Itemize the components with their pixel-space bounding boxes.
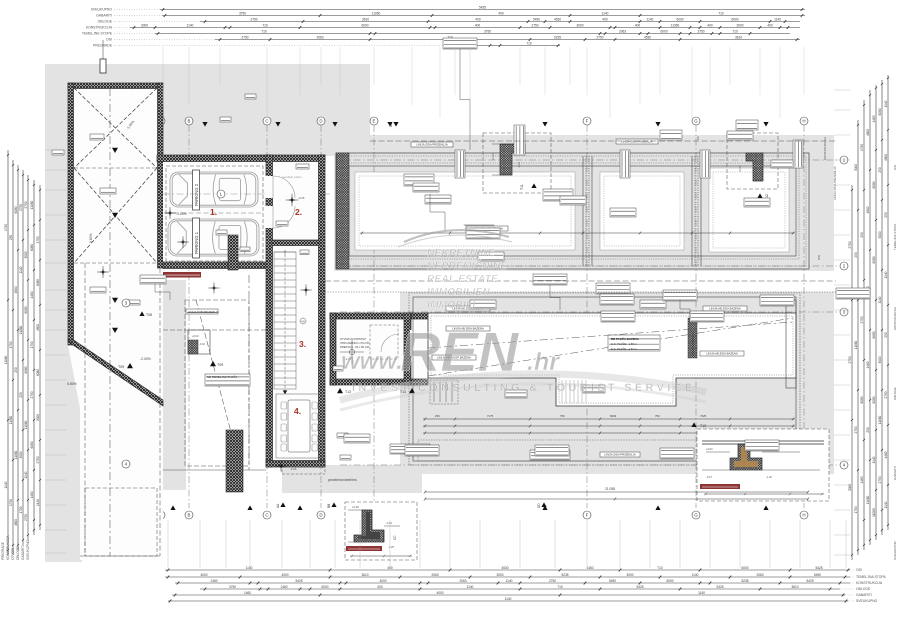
svg-text:- ugostitelj. kotlov -: - ugostitelj. kotlov - [280, 175, 303, 179]
foundation strip outer line [336, 153, 809, 269]
T09b marker [127, 363, 133, 368]
svg-text:+0.38: +0.38 [352, 505, 359, 509]
svg-text:5235: 5235 [554, 35, 561, 39]
svg-text:4000: 4000 [379, 579, 386, 583]
svg-text:6000: 6000 [321, 585, 328, 589]
svg-text:TEMELJNE STOPE: TEMELJNE STOPE [82, 32, 113, 36]
svg-text:T13: T13 [345, 390, 351, 394]
central building bottom stub [282, 467, 325, 474]
excavation zone top-left [45, 64, 370, 156]
svg-text:7175: 7175 [487, 414, 494, 418]
svg-text:1750: 1750 [9, 499, 13, 506]
svg-text:11060: 11060 [19, 325, 23, 334]
svg-text:21 058: 21 058 [605, 487, 615, 491]
svg-text:400: 400 [498, 11, 504, 15]
compressor label black [163, 272, 201, 278]
svg-text:6080: 6080 [24, 366, 28, 373]
svg-text:T13: T13 [700, 424, 706, 428]
svg-text:-0.06: -0.06 [290, 467, 297, 471]
svg-text:6000: 6000 [676, 17, 683, 21]
svg-text:D: D [319, 513, 322, 518]
svg-text:3000: 3000 [19, 451, 23, 458]
left building lower dashed outline [74, 88, 160, 556]
svg-text:NE TEMELJNA PLOČA: NE TEMELJNA PLOČA [207, 374, 237, 379]
svg-text:11060: 11060 [372, 11, 381, 15]
detail T13 drawing [702, 441, 824, 444]
svg-text:TEMELJNA STOPA: TEMELJNA STOPA [856, 575, 886, 579]
central building perimeter wall [266, 155, 325, 467]
svg-text:1140: 1140 [36, 499, 40, 506]
svg-text:6003: 6003 [610, 414, 617, 418]
svg-text:3000: 3000 [878, 356, 882, 363]
grid axis triangles top [202, 122, 207, 127]
strojarnica walls [330, 313, 428, 385]
garage centre dashline [166, 212, 263, 214]
svg-text:www.: www. [341, 348, 403, 375]
svg-text:5425: 5425 [806, 579, 813, 583]
REN.hr watermark [340, 230, 706, 410]
svg-text:4000: 4000 [281, 573, 288, 577]
svg-text:1750: 1750 [854, 506, 858, 513]
svg-text:2750: 2750 [30, 391, 34, 398]
detail T10 footing [354, 510, 384, 542]
svg-text:400: 400 [602, 17, 608, 21]
central building interior [266, 155, 325, 467]
svg-text:5490: 5490 [609, 579, 616, 583]
svg-text:INVEST CONSULTING & TOURIST SE: INVEST CONSULTING & TOURIST SERVICE [352, 382, 695, 394]
svg-text:1460: 1460 [860, 476, 864, 483]
bottom extension lines [168, 520, 846, 568]
svg-text:OBLOGE: OBLOGE [893, 387, 897, 400]
svg-text:-0.32: -0.32 [199, 342, 205, 346]
room 2 star [288, 196, 296, 204]
svg-text:250: 250 [884, 332, 888, 338]
svg-text:1460: 1460 [210, 579, 217, 583]
svg-text:OBLOGE: OBLOGE [98, 20, 113, 24]
svg-text:1750: 1750 [4, 224, 8, 231]
left building floor line [74, 167, 157, 169]
strip label small [660, 130, 682, 140]
svg-text:11060: 11060 [872, 508, 876, 517]
right stack labels [817, 137, 897, 560]
extra band labels [425, 195, 451, 204]
svg-text:6000: 6000 [731, 17, 738, 21]
svg-text:710: 710 [732, 29, 738, 33]
strip vert label 1 [514, 125, 525, 155]
svg-text:LINIJA AB ZIDA BAZENA: LINIJA AB ZIDA BAZENA [709, 307, 741, 311]
pool basin [428, 313, 796, 406]
pool deck outer dotted [409, 293, 800, 465]
foundation strip outer dotted [339, 156, 806, 266]
svg-text:3750: 3750 [484, 29, 491, 33]
svg-text:6080: 6080 [24, 306, 28, 313]
svg-text:3000: 3000 [854, 164, 858, 171]
central hatched pier [226, 430, 243, 492]
strip vert label 2 [455, 150, 465, 178]
svg-text:2750: 2750 [36, 456, 40, 463]
svg-text:6080: 6080 [872, 181, 876, 188]
svg-text:1140: 1140 [602, 11, 609, 15]
svg-text:1750: 1750 [30, 341, 34, 348]
svg-text:C: C [265, 513, 268, 518]
svg-text:SVEUKUPNO: SVEUKUPNO [893, 540, 897, 560]
detail T11 footing [500, 144, 525, 175]
svg-text:B: B [188, 513, 191, 518]
car parking 2 [170, 172, 258, 207]
deck bottom labels [530, 450, 570, 460]
svg-text:3000: 3000 [36, 414, 40, 421]
extra deck labels [470, 300, 496, 309]
svg-text:6000: 6000 [666, 579, 673, 583]
svg-text:G: G [694, 119, 698, 124]
svg-text:750: 750 [655, 414, 660, 418]
service room label [205, 374, 250, 386]
svg-text:3000: 3000 [24, 251, 28, 258]
excavation zone pool deck [400, 292, 834, 474]
svg-text:4800: 4800 [866, 206, 870, 213]
foundation strip inner line [349, 166, 796, 256]
svg-text:V6: V6 [301, 320, 305, 324]
svg-text:REAL ESTATE: REAL ESTATE [427, 274, 498, 285]
foundation strip divider 2 [692, 156, 701, 266]
small hatch details mid [228, 235, 238, 270]
svg-text:1140: 1140 [647, 17, 654, 21]
svg-text:1460: 1460 [872, 115, 876, 122]
svg-text:5235: 5235 [741, 579, 748, 583]
svg-text:1140: 1140 [878, 296, 882, 303]
svg-text:2063: 2063 [619, 29, 626, 33]
svg-text:2750: 2750 [848, 241, 852, 248]
svg-text:1140: 1140 [698, 591, 705, 595]
svg-text:1.: 1. [210, 207, 217, 217]
svg-text:-1.25: -1.25 [388, 545, 394, 549]
svg-text:KONSTRUKCIJA: KONSTRUKCIJA [86, 26, 113, 30]
left building diagonal wall [68, 340, 163, 406]
svg-text:250: 250 [866, 427, 870, 433]
svg-text:2063: 2063 [431, 573, 438, 577]
svg-text:-1.20: -1.20 [766, 475, 772, 479]
room 3 circle [300, 318, 306, 324]
detail T13 box [697, 429, 829, 501]
svg-text:1140: 1140 [24, 471, 28, 478]
svg-text:T09: T09 [217, 363, 223, 367]
T09 detail hatch [188, 330, 210, 354]
service rooms outline [163, 275, 266, 470]
svg-text:6080: 6080 [872, 331, 876, 338]
svg-text:B: B [188, 119, 191, 124]
detail T10 marks [348, 510, 400, 542]
svg-text:H: H [802, 513, 805, 518]
svg-text:KONSTRUKCIJA: KONSTRUKCIJA [6, 535, 10, 560]
svg-text:400: 400 [707, 23, 713, 27]
pool label centre [608, 335, 660, 351]
room 3 star [303, 287, 309, 293]
svg-text:1140: 1140 [19, 266, 23, 273]
svg-text:250: 250 [878, 167, 882, 173]
svg-text:4.: 4. [294, 406, 301, 416]
svg-text:5425: 5425 [479, 5, 486, 9]
detail T13 dims [704, 493, 824, 495]
svg-text:11060: 11060 [4, 355, 8, 364]
svg-text:NEPREMIČNINE: NEPREMIČNINE [427, 259, 507, 272]
svg-text:-0.42: -0.42 [517, 162, 521, 168]
svg-text:OSI: OSI [817, 255, 821, 260]
excavation zone below central building [282, 465, 422, 493]
bottom dimension block [165, 566, 886, 603]
strip label 5 [543, 189, 573, 201]
svg-text:710: 710 [526, 41, 532, 45]
grid bubble axis L [217, 190, 225, 198]
svg-text:RB PLOČA BAZENA: RB PLOČA BAZENA [611, 336, 640, 341]
svg-text:PARKING 2: PARKING 2 [194, 183, 199, 206]
top extension lines [163, 47, 804, 118]
svg-text:1140: 1140 [187, 23, 194, 27]
svg-text:6080: 6080 [30, 441, 34, 448]
svg-text:400: 400 [635, 23, 641, 27]
svg-text:-0.06: -0.06 [298, 196, 305, 200]
reference line upper [370, 140, 836, 142]
deck step shapes mid [430, 380, 458, 404]
svg-text:6080: 6080 [860, 396, 864, 403]
parking sign 1 [193, 218, 200, 258]
strip inner dimension [360, 232, 795, 235]
svg-text:750: 750 [560, 414, 565, 418]
deck step detail right [712, 440, 796, 461]
left building interior [68, 83, 163, 560]
strip label 2 [616, 139, 658, 144]
svg-text:CC: CC [393, 535, 397, 540]
svg-text:SVEUKUPNO: SVEUKUPNO [91, 8, 113, 12]
svg-text:+0.00: +0.00 [706, 447, 713, 451]
svg-text:GABARITI: GABARITI [893, 466, 897, 480]
svg-text:250: 250 [14, 367, 18, 373]
svg-text:2750: 2750 [19, 204, 23, 211]
svg-text:250: 250 [860, 232, 864, 238]
left bldg level mark [100, 269, 107, 276]
strojarnica star [349, 349, 354, 354]
room 4 star [278, 463, 284, 469]
left building X-brace lower [74, 168, 157, 263]
svg-text:6080: 6080 [36, 369, 40, 376]
pool diagonal line [428, 318, 793, 376]
svg-text:+0.00: +0.00 [491, 153, 495, 160]
garage top wall [157, 155, 270, 162]
svg-text:1750: 1750 [19, 506, 23, 513]
svg-text:1140: 1140 [506, 579, 513, 583]
svg-text:1750: 1750 [9, 341, 13, 348]
strip vert label 4 [700, 150, 710, 178]
svg-text:6080: 6080 [872, 256, 876, 263]
strojarnica labels [333, 366, 343, 371]
reference line prizemlje 2 [325, 291, 836, 293]
deck bottom band line [418, 440, 796, 461]
strip label 4 [404, 174, 434, 186]
svg-text:LINIJA ZIDA PRIZEMLJA: LINIJA ZIDA PRIZEMLJA [621, 140, 653, 144]
below deck dim line [424, 491, 809, 494]
svg-text:5425: 5425 [295, 579, 302, 583]
svg-text:3000: 3000 [736, 23, 743, 27]
svg-text:11060: 11060 [9, 415, 13, 424]
svg-text:2750: 2750 [24, 514, 28, 521]
pool label left2 [432, 355, 476, 360]
svg-text:400: 400 [475, 17, 481, 21]
left stack labels [1, 535, 30, 560]
svg-text:1140: 1140 [246, 566, 253, 570]
svg-text:GABARITI: GABARITI [96, 14, 112, 18]
svg-text:4530: 4530 [501, 566, 508, 570]
svg-text:PREGRADE: PREGRADE [1, 542, 5, 560]
svg-text:4800: 4800 [866, 129, 870, 136]
svg-text:3610: 3610 [362, 17, 369, 21]
svg-text:4530: 4530 [554, 17, 561, 21]
svg-text:SVEUKUPNO: SVEUKUPNO [856, 599, 878, 603]
svg-text:GABARITI: GABARITI [856, 593, 872, 597]
deck right column [786, 300, 796, 388]
svg-text:F: F [586, 119, 589, 124]
svg-text:3000: 3000 [496, 573, 503, 577]
svg-text:2063: 2063 [459, 579, 466, 583]
detail T11 box [483, 133, 551, 193]
grid bubbles bottom row [157, 511, 165, 519]
svg-text:BB: BB [327, 504, 331, 508]
svg-text:H: H [802, 119, 805, 124]
svg-text:5425: 5425 [815, 566, 822, 570]
grid axis triangles bottom [170, 505, 175, 510]
svg-text:6000: 6000 [361, 23, 368, 27]
label leader lines [460, 49, 470, 150]
structural grid vertical axis lines [161, 125, 804, 508]
svg-text:-0.47: -0.47 [706, 475, 712, 479]
detail T10 dims [350, 555, 412, 557]
svg-text:11060: 11060 [671, 23, 680, 27]
strip left end hatch [336, 153, 349, 269]
svg-text:4530: 4530 [644, 35, 651, 39]
car parking 1 [168, 219, 259, 256]
svg-text:+0.00: +0.00 [738, 165, 742, 172]
foundation bay 3 interior [709, 168, 789, 252]
svg-text:-2.00%: -2.00% [140, 357, 151, 361]
svg-text:2750: 2750 [884, 391, 888, 398]
garage label box [220, 117, 231, 122]
svg-text:KONSTRUKCIJA: KONSTRUKCIJA [856, 581, 883, 585]
pool basin inner [431, 316, 793, 403]
svg-text:6080: 6080 [14, 206, 18, 213]
excavation zone left band [45, 64, 70, 562]
right dimension stack [848, 75, 889, 560]
svg-text:7325: 7325 [700, 414, 707, 418]
svg-text:3610: 3610 [791, 585, 798, 589]
svg-text:1140: 1140 [884, 271, 888, 278]
svg-text:LINIJA ZIDA PRIZEMLJA: LINIJA ZIDA PRIZEMLJA [833, 166, 837, 200]
foundation strip divider 1 [583, 156, 592, 266]
svg-text:LINIJA PRIZEMLJA: LINIJA PRIZEMLJA [691, 331, 695, 356]
svg-text:6000: 6000 [741, 566, 748, 570]
detail T12 footing [746, 153, 763, 181]
strip vert label 5 [793, 140, 803, 168]
svg-text:6080: 6080 [878, 108, 882, 115]
svg-text:4000: 4000 [436, 591, 443, 595]
left building X-brace upper [74, 88, 157, 168]
strojarnica interior [330, 313, 428, 385]
svg-text:LINIJA AB ZIDA BAZENA: LINIJA AB ZIDA BAZENA [706, 352, 738, 356]
svg-text:2750: 2750 [531, 23, 538, 27]
svg-text:1140: 1140 [467, 585, 474, 589]
deck T13 triangles [337, 388, 343, 393]
svg-text:1140: 1140 [884, 501, 888, 508]
svg-text:11060: 11060 [14, 450, 18, 459]
foundation bay 2 interior [600, 172, 684, 250]
svg-text:250: 250 [435, 414, 440, 418]
strojarnica door [410, 330, 419, 356]
svg-text:2750: 2750 [860, 316, 864, 323]
svg-text:2750: 2750 [549, 579, 556, 583]
svg-text:2750: 2750 [241, 35, 248, 39]
T09 marker [210, 361, 216, 366]
svg-text:PARKING 1: PARKING 1 [194, 231, 199, 254]
svg-text:3000: 3000 [626, 573, 633, 577]
stair room 3 treads [274, 250, 296, 390]
strip label 1 [411, 142, 453, 147]
svg-text:2063: 2063 [316, 35, 323, 39]
svg-text:3000: 3000 [576, 23, 583, 27]
svg-text:5.80%: 5.80% [67, 382, 77, 386]
svg-text:1460: 1460 [30, 491, 34, 498]
svg-text:6080: 6080 [30, 244, 34, 251]
svg-text:IMMOBILIEN: IMMOBILIEN [427, 287, 490, 298]
svg-text:2.: 2. [295, 207, 302, 217]
detail T13 blacklabel [700, 484, 740, 489]
room 4 table [276, 394, 322, 458]
reference line prizemlje 1 [325, 280, 836, 282]
svg-text:6080: 6080 [36, 279, 40, 286]
svg-text:3750: 3750 [229, 585, 236, 589]
svg-text:pondimoccanti/ms: pondimoccanti/ms [327, 478, 357, 482]
svg-text:LINIJA TOB PRIZEMLJA: LINIJA TOB PRIZEMLJA [188, 310, 219, 314]
left building arrows [112, 148, 118, 153]
svg-text:E: E [373, 119, 376, 124]
left building labels [90, 134, 104, 140]
svg-text:OSI: OSI [856, 568, 862, 572]
excavation zone upper right band [334, 135, 834, 271]
svg-text:TEMELJNA STOPA: TEMELJNA STOPA [893, 224, 897, 250]
svg-text:6000: 6000 [660, 29, 667, 33]
parking sign 2 [193, 170, 200, 210]
stair dn small [229, 434, 242, 489]
svg-text:4800: 4800 [14, 286, 18, 293]
svg-text:OBLOGE: OBLOGE [856, 587, 871, 591]
svg-text:250: 250 [9, 235, 13, 241]
svg-text:6080: 6080 [872, 396, 876, 403]
pool deck outer line [413, 297, 796, 461]
svg-text:C: C [265, 119, 268, 124]
left strip boxes [90, 287, 106, 293]
svg-text:F4: F4 [696, 136, 700, 140]
svg-text:710: 710 [657, 566, 663, 570]
svg-text:3750: 3750 [239, 11, 246, 15]
left extension lines [45, 150, 66, 553]
svg-text:IMMOBILI: IMMOBILI [427, 300, 476, 311]
svg-text:D: D [319, 119, 322, 124]
svg-text:1140: 1140 [774, 17, 781, 21]
svg-text:710: 710 [262, 23, 268, 27]
svg-text:3610: 3610 [361, 573, 368, 577]
svg-text:LINIJA ZIDA PRIZEMLJA: LINIJA ZIDA PRIZEMLJA [604, 453, 636, 457]
svg-text:4800: 4800 [14, 519, 18, 526]
svg-text:OBLOGE: OBLOGE [16, 547, 20, 560]
svg-text:3000: 3000 [141, 23, 148, 27]
garage star [167, 210, 174, 217]
excavation zone right of left building [158, 280, 186, 490]
